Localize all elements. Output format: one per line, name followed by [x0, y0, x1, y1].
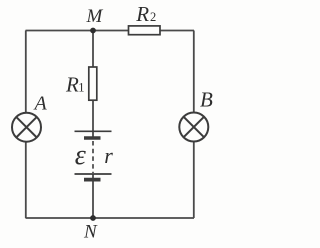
wire: bottom horizontal N row	[26, 217, 195, 219]
wire: middle vertical branch lower	[92, 174, 94, 218]
svg-text:M: M	[86, 6, 104, 27]
dashed line between cells	[92, 141, 94, 173]
node M	[90, 28, 96, 34]
svg-text:1: 1	[78, 81, 84, 95]
svg-text:A: A	[33, 93, 48, 115]
resistor R2	[129, 26, 161, 35]
wire: top horizontal M row	[26, 30, 195, 32]
battery cell 2 short thick plate	[84, 178, 101, 182]
svg-text:ε: ε	[75, 140, 86, 171]
wire: right vertical branch	[193, 31, 195, 219]
svg-text:R: R	[135, 2, 149, 26]
battery cell 1 long plate	[75, 130, 112, 132]
battery cell 1 short thick plate	[84, 136, 101, 140]
lamp A	[12, 113, 41, 142]
svg-text:R: R	[65, 73, 79, 97]
battery cell 2 long plate	[75, 173, 112, 175]
svg-text:2: 2	[150, 10, 156, 24]
wire: left vertical branch	[25, 31, 27, 219]
wire: middle vertical branch upper	[92, 31, 94, 139]
svg-text:N: N	[83, 222, 98, 243]
node N	[90, 215, 96, 221]
svg-text:B: B	[200, 87, 213, 111]
resistor R1	[89, 67, 97, 100]
svg-text:r: r	[104, 143, 113, 168]
lamp B	[179, 113, 208, 142]
